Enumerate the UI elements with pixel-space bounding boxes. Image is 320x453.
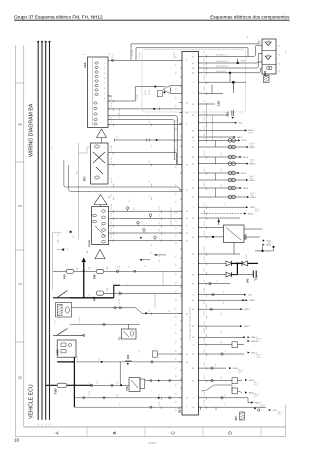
splice circle	[137, 221, 140, 224]
terminal arrow a	[240, 187, 242, 189]
svg-text:53: 53	[192, 104, 194, 106]
wire pair row a	[201, 187, 240, 189]
svg-text:0.5-SB: 0.5-SB	[139, 52, 141, 58]
relay B06 body	[224, 225, 245, 243]
svg-text:0.5: 0.5	[176, 341, 178, 343]
wire pair row b	[201, 196, 247, 198]
wire y380.6 left of ECU	[145, 380, 182, 382]
splice circle	[154, 236, 157, 239]
svg-text:3: 3	[186, 60, 187, 62]
svg-text:962-4: 962-4	[243, 188, 249, 190]
svg-text:0.5: 0.5	[159, 229, 161, 232]
wire ECU row 130.4	[201, 129, 245, 131]
svg-text:K-21: K-21	[257, 341, 260, 343]
bundle top blobs	[37, 41, 39, 43]
svg-text:0.5: 0.5	[117, 136, 119, 139]
svg-text:W-R (B32-1): W-R (B32-1)	[216, 54, 227, 56]
wire F67 row	[104, 293, 182, 295]
diode D2 mirrored	[242, 261, 248, 266]
connector 12A right edge pin ticks	[108, 59, 110, 61]
svg-text:15: 15	[192, 300, 194, 302]
svg-text:0.5: 0.5	[176, 332, 178, 334]
svg-text:0.5: 0.5	[176, 350, 178, 352]
svg-text:0.5: 0.5	[176, 72, 178, 74]
splice circles row a	[228, 186, 232, 190]
vertical gray link mid	[170, 207, 172, 226]
wire y140	[157, 139, 182, 141]
wire 507 to ECU lower	[108, 164, 182, 166]
svg-text:1438: 1438	[57, 349, 60, 355]
bold vertical from diode bus	[236, 263, 238, 274]
svg-text:27: 27	[186, 190, 188, 192]
svg-text:SB 1.5: SB 1.5	[260, 405, 265, 407]
svg-text:44: 44	[186, 362, 188, 364]
svg-text:0.5: 0.5	[221, 169, 223, 172]
svg-text:K-21: K-21	[250, 178, 253, 180]
svg-text:0.5-R: 0.5-R	[204, 347, 206, 352]
svg-text:0.5: 0.5	[176, 367, 178, 369]
wire 12A pin1 to ECU	[111, 59, 183, 61]
svg-text:0.5: 0.5	[176, 149, 178, 151]
wire 502 row	[108, 225, 182, 227]
svg-text:8: 8	[186, 226, 187, 228]
svg-text:58: 58	[279, 63, 281, 65]
fuse row continuation	[128, 270, 182, 272]
svg-text:0.5-R: 0.5-R	[119, 113, 121, 118]
svg-text:28: 28	[192, 188, 194, 190]
zone tick 2	[15, 161, 23, 163]
wire group to B25 row4	[201, 69, 262, 73]
svg-text:33: 33	[192, 157, 194, 159]
ECU right pin ticks	[198, 55, 201, 57]
svg-text:36: 36	[192, 237, 194, 239]
svg-text:30: 30	[279, 45, 281, 47]
svg-text:0.5: 0.5	[204, 111, 206, 114]
terminal arrow b	[246, 179, 248, 181]
connector 12A body	[88, 57, 109, 128]
svg-text:F67: F67	[93, 296, 97, 301]
svg-text:1.5: 1.5	[89, 382, 91, 385]
wire row 213 dashed	[201, 213, 244, 215]
bold link between diodes	[232, 262, 243, 264]
svg-text:0.5: 0.5	[176, 212, 178, 214]
svg-text:55: 55	[186, 112, 188, 114]
svg-text:0.5: 0.5	[117, 394, 119, 397]
junction wire row 82.6 extension	[233, 81, 246, 83]
svg-text:343: 343	[126, 354, 130, 359]
svg-text:0.5: 0.5	[176, 291, 178, 293]
svg-text:0.5: 0.5	[149, 310, 151, 313]
wire y361.9 right	[76, 361, 125, 363]
wire row 368.1	[201, 367, 226, 369]
svg-text:15: 15	[279, 54, 281, 56]
splice circles row b	[228, 195, 232, 199]
svg-text:K-21: K-21	[250, 145, 253, 147]
relay 507 coil diagonal 2	[93, 152, 105, 163]
svg-text:3: 3	[104, 73, 105, 75]
svg-text:0.5: 0.5	[176, 235, 178, 237]
svg-text:18: 18	[14, 438, 19, 443]
junction dot b1	[237, 62, 239, 64]
wire ECU row 227.5	[201, 227, 224, 229]
svg-text:0.5: 0.5	[176, 375, 178, 377]
svg-text:0.5: 0.5	[204, 64, 206, 67]
wire tick marks	[205, 55, 207, 58]
svg-text:6: 6	[193, 180, 194, 182]
wire left of 507 horizontal	[79, 147, 91, 153]
wire ECU row 122.8	[201, 122, 235, 124]
svg-text:0.5: 0.5	[55, 320, 57, 323]
relay 507 coil diagonal 1	[93, 152, 105, 163]
wire 507 to ECU upper	[108, 153, 176, 165]
svg-text:217: 217	[151, 251, 153, 254]
arrows right of B06	[263, 239, 265, 241]
fuse F66	[96, 269, 104, 273]
fuse F67	[96, 291, 104, 295]
wire row 392.5 arrow	[245, 391, 247, 393]
pair link	[215, 157, 217, 164]
svg-text:0.5: 0.5	[221, 313, 223, 316]
splice square a	[70, 231, 72, 233]
box at left y379	[140, 379, 145, 388]
svg-text:507: 507	[83, 176, 87, 181]
wire harness bundle line 3	[45, 42, 47, 420]
svg-text:0.5: 0.5	[134, 207, 136, 210]
svg-text:0.75: 0.75	[149, 160, 151, 164]
svg-text:9: 9	[186, 123, 187, 125]
svg-text:7: 7	[186, 407, 187, 409]
svg-text:R-SB: R-SB	[246, 254, 248, 259]
header rule	[14, 19, 290, 21]
502/529 diagonals	[95, 226, 105, 236]
wire harness bundle line 1	[37, 42, 39, 420]
502/529 pin ovals	[102, 210, 106, 213]
terminal arrow a	[240, 156, 242, 158]
wire row 326.1	[201, 325, 240, 327]
svg-text:0.5-R: 0.5-R	[119, 265, 121, 270]
svg-text:31: 31	[159, 255, 161, 257]
wire 12A row y115.8 jog down	[108, 116, 179, 165]
B25 lower connector hatch	[264, 76, 270, 83]
svg-text:Grupo 37 Esquema elétrico FM,: Grupo 37 Esquema elétrico FM, FH, NH12	[14, 15, 103, 20]
svg-text:963-2: 963-2	[248, 213, 254, 215]
bottom strip tick 3	[202, 427, 204, 437]
connector 12A inner column	[92, 59, 94, 126]
zone tick 3	[15, 249, 23, 251]
mid arrows cluster	[154, 254, 157, 256]
svg-text:K-21: K-21	[260, 407, 263, 409]
wire pair row a	[201, 139, 238, 141]
zone tick 4	[15, 341, 23, 343]
svg-text:0.5-GR: 0.5-GR	[174, 52, 176, 58]
wire riser to top bus 1	[131, 41, 259, 61]
svg-text:Y70: Y70	[125, 386, 129, 391]
svg-text:38: 38	[192, 137, 194, 139]
svg-text:A17: A17	[178, 407, 182, 413]
svg-text:12: 12	[186, 398, 188, 400]
svg-text:16: 16	[46, 424, 48, 426]
fuse F109	[57, 383, 66, 387]
bold wire up corner	[114, 285, 120, 298]
svg-text:4: 4	[193, 82, 194, 84]
bold vertical to y407	[73, 385, 75, 407]
small box below lens	[157, 91, 162, 97]
svg-text:B45-1: B45-1	[237, 137, 243, 139]
svg-text:0.5: 0.5	[176, 88, 178, 90]
svg-text:0.5: 0.5	[176, 409, 178, 411]
svg-text:X5: X5	[247, 36, 249, 38]
svg-text:0.75-B: 0.75-B	[204, 86, 206, 92]
svg-text:0.5: 0.5	[221, 377, 223, 380]
svg-text:28: 28	[192, 254, 194, 256]
bold wire right of D2	[248, 262, 259, 264]
svg-text:4: 4	[193, 263, 194, 265]
svg-text:0.5: 0.5	[176, 393, 178, 395]
svg-text:X2: X2	[127, 284, 129, 286]
svg-text:SB 1.5: SB 1.5	[250, 160, 255, 162]
svg-text:X1: X1	[129, 266, 131, 268]
wire row 294.7	[201, 294, 244, 296]
frame inner left	[23, 45, 25, 427]
gray wire y249.6	[57, 249, 65, 251]
svg-text:1.5: 1.5	[89, 294, 91, 297]
svg-text:B47-2: B47-2	[245, 309, 251, 311]
svg-text:0.5: 0.5	[176, 158, 178, 160]
svg-text:5: 5	[193, 207, 194, 209]
svg-text:31: 31	[145, 265, 147, 267]
svg-text:0.5: 0.5	[204, 69, 206, 72]
wire row 407.2	[201, 406, 266, 408]
svg-text:B+: B+	[151, 244, 153, 246]
wire ECU row 115	[201, 114, 228, 116]
bottom strip tick 2	[144, 427, 146, 437]
branch down x120.2	[119, 362, 121, 385]
svg-text:0.5: 0.5	[129, 200, 131, 203]
svg-text:SB 1.5: SB 1.5	[254, 394, 259, 396]
svg-text:27: 27	[192, 197, 194, 199]
warning triangle 2	[94, 195, 107, 205]
svg-text:K-21: K-21	[250, 162, 253, 164]
svg-text:0.5: 0.5	[176, 220, 178, 222]
wire row 408.4 ticks	[200, 407, 202, 410]
link box bottom to diode row	[233, 243, 235, 255]
svg-text:0.5: 0.5	[221, 331, 223, 334]
svg-text:0.5: 0.5	[176, 255, 178, 257]
svg-text:0.75: 0.75	[204, 268, 206, 272]
wire pair row b	[201, 146, 247, 148]
resistor box row 344	[232, 342, 238, 348]
wire 12A stub y96	[108, 95, 112, 97]
junction dots right cluster	[272, 246, 274, 248]
svg-text:SB 1.5: SB 1.5	[254, 382, 259, 384]
svg-text:B47-3: B47-3	[244, 326, 250, 328]
wire row 337.3	[201, 336, 244, 338]
svg-text:41: 41	[192, 326, 194, 328]
svg-text:31: 31	[279, 70, 281, 72]
svg-text:0.5-SB: 0.5-SB	[137, 94, 139, 100]
svg-text:35: 35	[186, 218, 188, 220]
wire 12A row y124.4	[108, 123, 182, 125]
wire ECU row 263.4	[201, 262, 226, 264]
svg-text:6: 6	[193, 227, 194, 229]
splice circle	[143, 229, 146, 232]
wire to F43	[53, 270, 66, 272]
warning triangle 3	[95, 249, 105, 258]
wire 502 row	[108, 239, 182, 241]
wire row 344.7	[201, 344, 232, 346]
wire group to B25 row2	[201, 53, 262, 63]
svg-text:0.75: 0.75	[159, 206, 161, 210]
wire row 283.7	[201, 283, 230, 285]
svg-text:4: 4	[193, 398, 194, 400]
wire harness bundle line 2	[41, 42, 43, 420]
svg-text:0.5: 0.5	[221, 184, 223, 187]
frame inner bottom	[24, 426, 286, 428]
splice circles row a	[228, 139, 232, 143]
svg-text:0.5: 0.5	[119, 403, 121, 406]
svg-text:0.5-GR: 0.5-GR	[111, 232, 113, 238]
svg-text:26: 26	[192, 381, 194, 383]
svg-text:SB 1.5: SB 1.5	[251, 193, 256, 195]
svg-text:B-R (B30-1): B-R (B30-1)	[216, 71, 226, 73]
svg-text:0.5: 0.5	[176, 201, 178, 203]
junction dot row 221	[218, 220, 220, 222]
svg-text:38: 38	[192, 368, 194, 370]
svg-text:1.5-SB: 1.5-SB	[119, 290, 121, 296]
terminal arrow a	[238, 172, 240, 174]
svg-text:0.5: 0.5	[221, 153, 223, 156]
tiny box pair	[153, 351, 158, 357]
wire 12A row y108.9 (from box)	[108, 108, 154, 110]
wire row 300.2	[201, 299, 246, 301]
svg-text:0.5-SB: 0.5-SB	[204, 74, 206, 80]
svg-text:0.5-SB: 0.5-SB	[204, 337, 206, 343]
svg-text:16: 16	[42, 424, 44, 426]
svg-text:38: 38	[192, 337, 194, 339]
svg-text:B1: B1	[109, 53, 111, 55]
svg-text:K-21: K-21	[278, 414, 281, 416]
svg-text:0.75: 0.75	[204, 58, 206, 62]
svg-text:4: 4	[193, 345, 194, 347]
svg-text:756A: 756A	[240, 60, 245, 63]
svg-text:0.5: 0.5	[176, 166, 178, 168]
wire y407.2	[74, 406, 182, 408]
gray vertical links left of ECU	[162, 271, 164, 285]
wire F43 to F66	[74, 270, 97, 272]
svg-text:0.5: 0.5	[176, 324, 178, 326]
wire ECU row 93.1	[201, 93, 223, 95]
svg-text:0.5: 0.5	[176, 193, 178, 195]
svg-text:K-21: K-21	[251, 195, 254, 197]
junction dot fuse bus	[83, 270, 85, 272]
svg-text:0.5-SB: 0.5-SB	[111, 203, 113, 209]
svg-text:10: 10	[192, 63, 194, 65]
svg-text:0.5: 0.5	[176, 358, 178, 360]
svg-text:VEHICLE ECU: VEHICLE ECU	[29, 384, 35, 419]
svg-text:0.5: 0.5	[204, 100, 206, 103]
F67 row continuation	[120, 284, 182, 286]
terminal arrow a	[238, 139, 240, 141]
connector 12A pins	[95, 62, 98, 64]
svg-text:SB 1.5: SB 1.5	[257, 339, 262, 341]
svg-text:217: 217	[159, 259, 161, 262]
svg-text:0.5: 0.5	[176, 308, 178, 310]
wires right of B06	[244, 228, 263, 230]
svg-text:14: 14	[192, 164, 194, 166]
svg-text:0.5: 0.5	[225, 350, 227, 353]
svg-text:36: 36	[186, 313, 188, 315]
svg-text:53: 53	[186, 354, 188, 356]
wire y324.4	[70, 323, 140, 325]
svg-text:16: 16	[38, 424, 40, 426]
svg-text:0.75: 0.75	[97, 381, 99, 385]
ECU left pin stubs unwired	[180, 67, 182, 69]
svg-text:37: 37	[192, 284, 194, 286]
svg-text:0.5: 0.5	[176, 227, 178, 229]
svg-text:31: 31	[149, 114, 151, 116]
resistor pair row 390	[232, 388, 238, 394]
svg-text:Esquemas elétricos dos compone: Esquemas elétricos dos componentes	[210, 15, 290, 20]
wire ECU row 236.9	[201, 236, 224, 238]
frame outer left	[14, 45, 16, 437]
svg-text:0.5: 0.5	[169, 310, 171, 313]
container box light	[142, 49, 246, 112]
svg-text:1354640: 1354640	[148, 443, 157, 445]
svg-text:K-21: K-21	[257, 357, 260, 359]
svg-text:4: 4	[104, 78, 105, 80]
pair link	[215, 140, 217, 147]
svg-text:W-SB (B33-1): W-SB (B33-1)	[216, 61, 228, 63]
svg-text:502/529: 502/529	[89, 239, 91, 247]
wire ECU row 218	[201, 217, 240, 219]
splice circles row a	[228, 171, 232, 175]
B25 divider2	[262, 64, 276, 66]
pin symbol below 11G	[231, 110, 233, 116]
svg-text:B46-1: B46-1	[250, 300, 256, 302]
junction on 502 wire	[140, 237, 142, 239]
svg-text:11G: 11G	[226, 112, 230, 117]
svg-text:0.5: 0.5	[176, 273, 178, 275]
svg-text:F66: F66	[93, 274, 97, 279]
svg-text:53: 53	[192, 275, 194, 277]
wire y108.9	[154, 108, 182, 110]
bold wire y297.8	[70, 297, 114, 299]
svg-text:0.75-R: 0.75-R	[204, 256, 206, 262]
connector 12A lower pins	[94, 102, 97, 104]
svg-text:0.5-W: 0.5-W	[204, 391, 206, 396]
svg-text:0.5-R: 0.5-R	[112, 53, 114, 58]
splice circles row b	[228, 145, 232, 149]
pair link	[215, 173, 217, 180]
svg-text:0.5: 0.5	[149, 120, 151, 123]
svg-text:F109: F109	[55, 388, 58, 394]
switch row above 1438	[53, 334, 84, 336]
svg-text:0.5-R: 0.5-R	[204, 150, 206, 155]
valve box Y1 mid	[122, 329, 137, 339]
svg-text:F43: F43	[63, 274, 67, 279]
ECU left pin ticks	[180, 59, 183, 61]
bold feed vertical	[83, 261, 85, 298]
svg-text:K-21: K-21	[238, 372, 241, 374]
splice circles row b	[228, 162, 232, 166]
wire corner to ECU a	[64, 160, 182, 191]
svg-text:0.5: 0.5	[176, 97, 178, 99]
svg-text:6: 6	[104, 88, 105, 90]
capacitor/ground 343	[237, 274, 253, 276]
svg-text:517: 517	[234, 416, 238, 421]
svg-text:0.5-SB: 0.5-SB	[204, 287, 206, 293]
svg-text:0.5: 0.5	[176, 140, 178, 142]
